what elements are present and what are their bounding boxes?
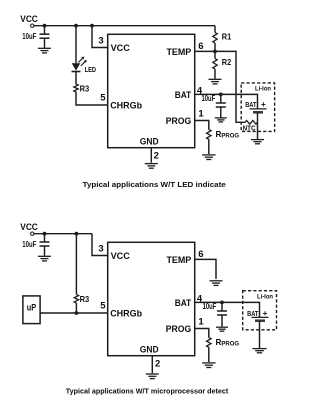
svg-text:5: 5 bbox=[100, 301, 106, 312]
junction dot bbox=[75, 232, 79, 236]
junction TEMP node bbox=[213, 50, 217, 54]
ground (C4) bbox=[216, 327, 228, 331]
svg-text:GND: GND bbox=[140, 345, 159, 356]
wire uP to pin 5 bbox=[40, 312, 108, 314]
svg-text:R1: R1 bbox=[222, 32, 232, 41]
svg-text:RPROG: RPROG bbox=[216, 338, 240, 348]
wire battery minus to ground (bottom) bbox=[259, 321, 261, 348]
wire pin 2 to ground (bottom) bbox=[151, 356, 153, 374]
svg-text:PROG: PROG bbox=[166, 116, 192, 127]
svg-text:10uF: 10uF bbox=[203, 301, 217, 311]
wire TEMP node to NTC bbox=[215, 51, 245, 122]
wire rail to LED anode bbox=[75, 26, 77, 64]
wire VCC rail (bottom) bbox=[34, 233, 92, 235]
wire pin 6 TEMP to ground bbox=[195, 259, 216, 279]
wire pin 2 to ground bbox=[150, 148, 152, 163]
svg-text:3: 3 bbox=[98, 36, 103, 47]
ground (battery bottom) bbox=[253, 349, 267, 353]
svg-text:RPROG: RPROG bbox=[216, 130, 240, 140]
svg-text:uP: uP bbox=[27, 302, 36, 312]
wire rail to pin 3 bbox=[92, 26, 108, 48]
svg-text:2: 2 bbox=[154, 151, 159, 162]
ground (pin 2) bbox=[145, 164, 158, 169]
thermistor NTC bbox=[245, 121, 258, 125]
svg-text:CHRGb: CHRGb bbox=[110, 100, 142, 111]
wire pin 1 PROG to RPROG bbox=[195, 121, 209, 130]
wire R2 to ground bbox=[214, 69, 216, 79]
capacitor C3 10uF bbox=[40, 234, 50, 256]
svg-text:CHRGb: CHRGb bbox=[110, 308, 142, 319]
VCC terminal bbox=[31, 24, 34, 27]
wire pin 1 PROG to RPROG (bottom) bbox=[195, 329, 209, 338]
svg-text:R3: R3 bbox=[80, 84, 90, 93]
LED D1 bbox=[72, 57, 87, 72]
battery pack dashed box (Li-Ion) bbox=[241, 83, 274, 131]
svg-text:Li-Ion: Li-Ion bbox=[255, 86, 271, 93]
ground (C3) bbox=[38, 256, 51, 261]
resistor R1 bbox=[213, 33, 217, 44]
junction dot bbox=[220, 301, 224, 305]
capacitor C2 10uF bbox=[216, 94, 226, 117]
svg-text:PROG: PROG bbox=[166, 324, 192, 335]
wire rail to R1 bbox=[214, 26, 216, 33]
svg-text:Typical applications W/T LED i: Typical applications W/T LED indicate bbox=[83, 182, 226, 189]
ground (C1) bbox=[38, 48, 51, 53]
svg-text:BAT: BAT bbox=[247, 311, 259, 318]
svg-text:BAT: BAT bbox=[175, 90, 192, 101]
wire LED cathode to R3 bbox=[75, 72, 77, 85]
ground (C2) bbox=[215, 118, 227, 122]
battery BT1 bbox=[250, 109, 267, 112]
junction dot bbox=[43, 232, 47, 236]
microprocessor box uP bbox=[23, 296, 40, 324]
IC U2 charger (bottom) bbox=[108, 242, 195, 355]
IC U1 charger bbox=[108, 34, 195, 147]
ground (pin 2 bottom) bbox=[146, 374, 159, 379]
junction dot bbox=[75, 311, 79, 315]
wire RPROG to ground bbox=[208, 139, 210, 154]
ground (R2) bbox=[209, 79, 222, 84]
svg-text:VCC: VCC bbox=[111, 251, 130, 262]
resistor RPROG (bottom) bbox=[207, 338, 211, 348]
svg-text:TEMP: TEMP bbox=[167, 47, 192, 58]
svg-text:3: 3 bbox=[98, 244, 103, 255]
svg-text:+: + bbox=[263, 309, 268, 318]
svg-text:BAT: BAT bbox=[175, 298, 192, 309]
svg-text:Li-Ion: Li-Ion bbox=[257, 293, 273, 300]
resistor R2 bbox=[213, 59, 217, 70]
svg-text:1: 1 bbox=[198, 109, 204, 120]
junction dot bbox=[43, 24, 47, 28]
svg-text:Typical applications W/T micro: Typical applications W/T microprocessor … bbox=[66, 388, 229, 395]
wire VCC rail bbox=[34, 25, 215, 27]
wire RPROG to ground (bottom) bbox=[208, 347, 210, 362]
ground (RPROG bottom) bbox=[202, 363, 216, 368]
wire pin 6 TEMP bbox=[195, 50, 215, 52]
svg-text:6: 6 bbox=[198, 41, 203, 52]
battery BT2 bbox=[252, 317, 269, 320]
resistor R3 bbox=[74, 84, 78, 92]
wire TEMP node to R2 bbox=[214, 51, 216, 58]
wire battery minus to NTC node bbox=[257, 112, 259, 122]
svg-text:6: 6 bbox=[198, 249, 203, 260]
svg-text:R2: R2 bbox=[222, 58, 232, 67]
wire rail to R3 (bottom) bbox=[75, 234, 77, 295]
wire NTC to ground bbox=[257, 122, 259, 139]
svg-text:1: 1 bbox=[198, 317, 204, 328]
svg-text:2: 2 bbox=[155, 359, 160, 370]
svg-text:+: + bbox=[261, 100, 266, 109]
svg-text:TEMP: TEMP bbox=[167, 255, 192, 266]
junction dot bbox=[74, 24, 78, 28]
wire pin 4 BAT to battery (bottom) bbox=[195, 302, 260, 317]
battery pack dashed box (Li-Ion, bottom) bbox=[243, 291, 277, 330]
ground (TEMP) bbox=[210, 281, 223, 286]
svg-text:LED: LED bbox=[85, 67, 96, 74]
svg-text:NTC: NTC bbox=[243, 124, 256, 133]
VCC terminal (bottom) bbox=[31, 232, 34, 235]
svg-text:10uF: 10uF bbox=[22, 31, 36, 41]
svg-text:VCC: VCC bbox=[20, 222, 38, 233]
svg-text:R3: R3 bbox=[80, 295, 90, 304]
wire R1 to TEMP node bbox=[214, 43, 216, 51]
wire rail to pin 3 (bottom) bbox=[92, 234, 108, 256]
junction dot bbox=[90, 24, 94, 28]
ground (RPROG) bbox=[202, 155, 216, 160]
svg-text:10uF: 10uF bbox=[22, 239, 36, 249]
svg-text:10uF: 10uF bbox=[202, 93, 216, 103]
svg-text:VCC: VCC bbox=[111, 43, 130, 54]
resistor RPROG bbox=[207, 130, 211, 140]
resistor R3 (bottom) bbox=[74, 295, 78, 304]
svg-text:VCC: VCC bbox=[20, 14, 38, 25]
svg-text:BAT: BAT bbox=[245, 102, 257, 109]
svg-text:5: 5 bbox=[100, 93, 106, 104]
wire R3 to CHRGb net bbox=[75, 303, 77, 313]
wire R3 to pin 5 bbox=[76, 92, 108, 105]
junction dot bbox=[219, 93, 223, 97]
capacitor C1 10uF bbox=[40, 26, 50, 48]
capacitor C4 10uF bbox=[217, 302, 227, 326]
ground (battery) bbox=[251, 140, 264, 144]
wire pin 4 BAT to battery bbox=[195, 94, 258, 109]
svg-text:GND: GND bbox=[140, 137, 159, 148]
